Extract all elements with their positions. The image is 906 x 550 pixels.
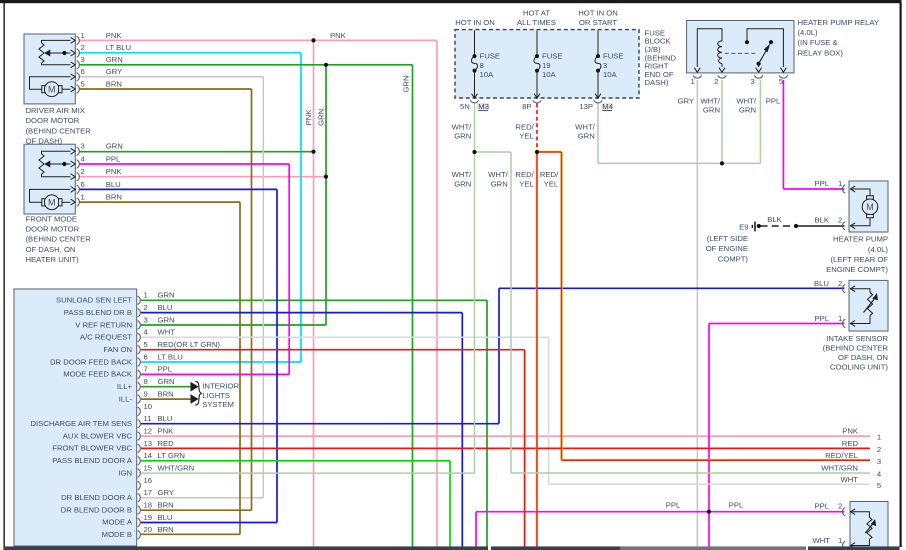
svg-text:GRN: GRN [158,377,175,386]
svg-text:PPL: PPL [158,365,173,374]
svg-text:RED/YEL: RED/YEL [825,451,859,460]
svg-text:4: 4 [144,328,149,337]
svg-text:PPL: PPL [666,501,681,510]
svg-text:2: 2 [144,303,148,312]
svg-text:M: M [48,84,56,94]
svg-text:8: 8 [480,61,484,70]
svg-text:WHT: WHT [158,328,176,337]
svg-text:BRN: BRN [106,79,122,88]
svg-text:YEL: YEL [544,180,559,189]
svg-text:PPL: PPL [814,314,829,323]
svg-text:GRN: GRN [491,180,508,189]
svg-text:BRN: BRN [158,500,174,509]
svg-text:GRN: GRN [158,315,175,324]
svg-text:12: 12 [144,426,153,435]
svg-text:6: 6 [144,352,148,361]
svg-text:14: 14 [144,451,153,460]
svg-text:PPL: PPL [814,502,829,511]
svg-text:LT GRN: LT GRN [158,451,185,460]
svg-text:11: 11 [144,414,152,423]
svg-text:BLK: BLK [767,215,782,224]
svg-text:2: 2 [877,445,881,454]
svg-text:BLU: BLU [158,513,173,522]
svg-text:HEATER UNIT): HEATER UNIT) [26,255,80,264]
svg-text:5: 5 [144,340,148,349]
svg-text:PPL: PPL [814,179,829,188]
svg-text:LT BLU: LT BLU [106,43,131,52]
svg-text:2: 2 [714,77,718,86]
svg-text:IGN: IGN [118,468,132,477]
svg-text:WHT/: WHT/ [700,96,721,105]
svg-text:ILL+: ILL+ [117,382,133,391]
svg-text:(LEFT REAR OF: (LEFT REAR OF [830,255,888,264]
svg-text:E9: E9 [739,223,748,232]
svg-text:RED(OR LT GRN): RED(OR LT GRN) [158,340,221,349]
svg-text:2: 2 [81,167,85,176]
svg-text:YEL: YEL [519,132,534,141]
svg-text:RED/: RED/ [515,122,534,131]
svg-text:3: 3 [877,457,881,466]
svg-text:BRN: BRN [158,525,174,534]
svg-text:(BEHIND CENTER: (BEHIND CENTER [26,126,92,135]
svg-text:HOT AT: HOT AT [523,8,550,17]
svg-text:1: 1 [838,314,842,323]
svg-text:FRONT MODE: FRONT MODE [26,214,78,223]
svg-text:1: 1 [81,193,85,202]
svg-text:13P: 13P [579,102,593,111]
svg-text:1: 1 [691,77,695,86]
svg-text:LIGHTS: LIGHTS [202,391,230,400]
svg-text:(4.0L): (4.0L) [868,245,889,254]
svg-text:GRN: GRN [106,142,123,151]
svg-text:RED: RED [158,439,175,448]
svg-text:WHT/: WHT/ [452,122,473,131]
svg-text:2: 2 [838,216,842,225]
svg-text:19: 19 [144,513,153,522]
svg-text:2: 2 [838,502,842,511]
svg-text:5: 5 [877,481,881,490]
svg-text:10A: 10A [603,70,618,79]
svg-text:(IN FUSE &: (IN FUSE & [798,38,838,47]
svg-text:RED/: RED/ [540,170,559,179]
svg-text:DR DOOR FEED BACK: DR DOOR FEED BACK [50,357,133,366]
svg-text:BRN: BRN [158,389,174,398]
svg-text:19: 19 [542,61,551,70]
svg-text:FUSE: FUSE [480,52,501,61]
svg-text:BLU: BLU [158,303,173,312]
svg-text:MODE B: MODE B [102,530,132,539]
svg-text:LT BLU: LT BLU [158,352,183,361]
svg-text:PNK: PNK [106,31,123,40]
svg-text:GRN: GRN [454,180,471,189]
svg-text:16: 16 [144,476,153,485]
svg-text:1: 1 [877,433,881,442]
svg-text:DRIVER AIR MIX: DRIVER AIR MIX [26,106,85,115]
svg-text:PPL: PPL [766,96,781,105]
svg-text:5: 5 [81,79,85,88]
svg-text:YEL: YEL [519,180,534,189]
svg-text:WHT: WHT [840,475,858,484]
svg-text:A/C REQUEST: A/C REQUEST [80,333,132,342]
svg-text:8: 8 [144,377,148,386]
svg-text:WHT/: WHT/ [488,170,509,179]
svg-text:AUX BLOWER VBC: AUX BLOWER VBC [63,431,133,440]
svg-text:1: 1 [838,179,842,188]
svg-text:FUSE: FUSE [542,52,563,61]
svg-text:RELAY BOX): RELAY BOX) [798,48,844,57]
svg-text:GRN: GRN [316,109,325,126]
svg-text:PNK: PNK [106,167,123,176]
svg-text:PASS BLEND DR B: PASS BLEND DR B [64,308,132,317]
svg-text:10: 10 [144,402,153,411]
svg-text:ENGINE COMPT): ENGINE COMPT) [826,265,888,274]
svg-text:WHT/GRN: WHT/GRN [158,463,195,472]
svg-text:M4: M4 [602,102,613,111]
svg-text:WHT/: WHT/ [452,170,473,179]
svg-text:GRN: GRN [401,75,410,92]
svg-text:PPL: PPL [106,154,121,163]
svg-text:RED: RED [842,439,859,448]
svg-text:3: 3 [751,77,755,86]
svg-text:GRY: GRY [677,96,694,105]
svg-text:BLU: BLU [158,414,173,423]
svg-text:(4.0L): (4.0L) [798,28,819,37]
svg-text:MODE FEED BACK: MODE FEED BACK [63,370,133,379]
svg-text:4: 4 [81,154,86,163]
svg-text:HOT IN ON: HOT IN ON [578,8,618,17]
svg-text:OF DASH, ON: OF DASH, ON [26,245,76,254]
svg-text:WHT: WHT [812,536,830,545]
svg-text:10A: 10A [480,70,495,79]
svg-text:2: 2 [838,279,842,288]
svg-text:DISCHARGE AIR TEM SENS: DISCHARGE AIR TEM SENS [30,419,132,428]
svg-text:GRN: GRN [106,55,123,64]
svg-text:WHT/: WHT/ [575,122,596,131]
svg-text:4: 4 [877,470,882,479]
svg-text:GRN: GRN [739,106,756,115]
svg-text:GRY: GRY [106,67,123,76]
svg-text:WHT/: WHT/ [736,96,757,105]
svg-text:V REF RETURN: V REF RETURN [75,320,132,329]
svg-text:HOT IN ON: HOT IN ON [455,18,495,27]
svg-text:DOOR MOTOR: DOOR MOTOR [26,225,80,234]
svg-text:BLU: BLU [106,180,121,189]
svg-text:GRY: GRY [158,488,175,497]
svg-text:17: 17 [144,488,153,497]
svg-text:13: 13 [144,439,153,448]
svg-text:GRN: GRN [578,132,595,141]
svg-text:PNK: PNK [330,31,347,40]
svg-text:DASH): DASH) [645,78,669,87]
svg-text:OR START: OR START [579,18,617,27]
svg-text:3: 3 [81,142,85,151]
svg-text:COOLING UNIT): COOLING UNIT) [830,363,889,372]
svg-text:DR BLEND DOOR A: DR BLEND DOOR A [61,493,133,502]
svg-text:FAN ON: FAN ON [103,345,132,354]
svg-text:PASS BLEND DOOR A: PASS BLEND DOOR A [52,456,133,465]
svg-text:9: 9 [144,389,148,398]
svg-text:M: M [866,202,874,212]
svg-text:INTAKE SENSOR: INTAKE SENSOR [826,334,888,343]
svg-text:BLU: BLU [814,279,829,288]
svg-text:PPL: PPL [729,501,744,510]
svg-text:6: 6 [81,67,85,76]
svg-text:HEATER PUMP: HEATER PUMP [833,235,888,244]
svg-text:5: 5 [779,77,783,86]
svg-text:DOOR MOTOR: DOOR MOTOR [26,116,80,125]
svg-text:RED/: RED/ [515,170,534,179]
svg-text:M: M [48,198,56,208]
svg-text:FUSE: FUSE [603,52,624,61]
svg-text:SYSTEM: SYSTEM [202,400,234,409]
svg-text:PNK: PNK [158,426,175,435]
svg-text:OF ENGINE: OF ENGINE [706,244,748,253]
svg-text:(BEHIND CENTER: (BEHIND CENTER [823,343,889,352]
svg-text:GRN: GRN [158,291,175,300]
svg-text:FRONT BLOWER VBC: FRONT BLOWER VBC [52,444,132,453]
svg-text:DR BLEND DOOR B: DR BLEND DOOR B [61,505,132,514]
svg-text:15: 15 [144,463,153,472]
svg-text:3: 3 [144,315,148,324]
svg-text:ILL-: ILL- [119,394,133,403]
svg-text:OF DASH): OF DASH) [26,137,63,146]
svg-text:8P: 8P [522,102,531,111]
svg-text:10A: 10A [542,70,557,79]
svg-text:BLK: BLK [814,216,829,225]
svg-text:(LEFT SIDE: (LEFT SIDE [707,234,748,243]
svg-text:1: 1 [838,536,842,545]
svg-text:6: 6 [81,180,85,189]
svg-text:OF DASH, ON: OF DASH, ON [838,353,888,362]
svg-text:BRN: BRN [106,193,122,202]
svg-text:HEATER PUMP RELAY: HEATER PUMP RELAY [798,18,880,27]
svg-text:MODE A: MODE A [102,518,133,527]
svg-text:M3: M3 [478,102,489,111]
svg-text:2: 2 [81,43,85,52]
svg-text:5N: 5N [460,102,470,111]
svg-text:PNK: PNK [304,109,313,126]
svg-text:7: 7 [144,365,148,374]
svg-text:1: 1 [81,31,85,40]
svg-text:1: 1 [144,291,148,300]
svg-text:GRN: GRN [454,132,471,141]
svg-text:18: 18 [144,500,153,509]
svg-text:WHT/GRN: WHT/GRN [821,464,858,473]
svg-text:3: 3 [603,61,607,70]
svg-text:SUNLOAD SEN LEFT: SUNLOAD SEN LEFT [56,296,132,305]
svg-text:(BEHIND CENTER: (BEHIND CENTER [26,235,92,244]
svg-text:20: 20 [144,525,153,534]
svg-text:ALL TIMES: ALL TIMES [517,18,556,27]
svg-text:3: 3 [81,55,85,64]
svg-text:GRN: GRN [703,106,720,115]
svg-text:INTERIOR: INTERIOR [202,382,239,391]
svg-text:PNK: PNK [842,427,859,436]
svg-text:COMPT): COMPT) [718,254,749,263]
